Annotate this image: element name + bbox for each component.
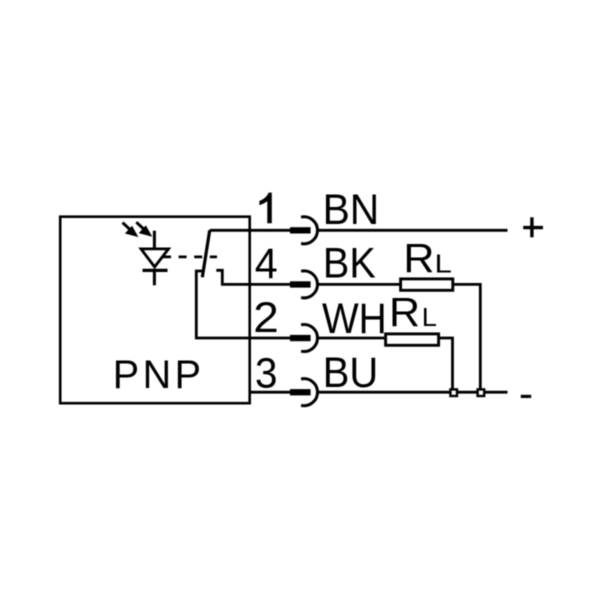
svg-text:R: R bbox=[389, 289, 420, 335]
wire pin2 stub bbox=[250, 337, 291, 340]
connector socket arc pin 3 bbox=[301, 379, 317, 406]
connector socket arc pin 1 bbox=[301, 217, 317, 244]
light arrow 1 bbox=[123, 223, 137, 236]
minus terminal bbox=[521, 395, 531, 398]
resistor RL1 bbox=[401, 279, 453, 290]
svg-text:3: 3 bbox=[255, 348, 277, 396]
svg-text:L: L bbox=[434, 250, 451, 279]
wire BN bbox=[318, 229, 508, 232]
connector socket arc pin 2 bbox=[301, 325, 317, 352]
svg-text:4: 4 bbox=[255, 240, 278, 288]
svg-text:PNP: PNP bbox=[113, 353, 205, 397]
svg-text:BN: BN bbox=[323, 185, 380, 233]
pin number 1 bbox=[259, 193, 271, 224]
wire pin1 stub bbox=[250, 229, 291, 232]
connector socket arc pin 4 bbox=[301, 271, 317, 298]
connector plug pin 4 bbox=[290, 281, 311, 287]
switch NO contact to pin 4 wire bbox=[216, 270, 251, 284]
resistor RL2 bbox=[386, 334, 439, 345]
svg-text:2: 2 bbox=[253, 295, 279, 342]
svg-text:WH: WH bbox=[322, 295, 387, 343]
photodiode D1 triangle bbox=[141, 249, 169, 267]
wire BU bbox=[318, 391, 508, 394]
wire BK to resistor bbox=[318, 283, 400, 286]
plus terminal bbox=[523, 226, 543, 229]
dashed mechanical link bbox=[163, 255, 217, 258]
photodiode D1 bottom lead bbox=[153, 270, 156, 285]
photodiode D1 top lead bbox=[153, 231, 156, 249]
wire pin4 stub bbox=[250, 283, 291, 286]
photodiode D1 cathode bar bbox=[143, 269, 168, 272]
switch NC contact to pin 2 wire bbox=[196, 271, 251, 338]
junction square node RL2/BU bbox=[450, 389, 457, 396]
wire WH to resistor bbox=[318, 337, 385, 340]
svg-text:L: L bbox=[422, 302, 437, 331]
connector plug pin 1 bbox=[290, 227, 311, 233]
sensor body box bbox=[60, 217, 250, 404]
light arrow 2 bbox=[136, 222, 150, 235]
svg-text:BU: BU bbox=[323, 349, 378, 396]
svg-text:R: R bbox=[403, 235, 434, 281]
wire pin3 stub bbox=[250, 391, 291, 394]
connector plug pin 2 bbox=[290, 335, 311, 341]
connector plug pin 3 bbox=[290, 389, 311, 395]
svg-text:BK: BK bbox=[323, 239, 376, 287]
wire RL2 to corner and drop bbox=[439, 338, 453, 392]
switch top wire to pin 1 bbox=[210, 229, 251, 232]
wire RL1 to corner and drop bbox=[453, 284, 481, 392]
switch lever bbox=[202, 230, 209, 277]
junction square node RL1/BU bbox=[478, 389, 485, 396]
